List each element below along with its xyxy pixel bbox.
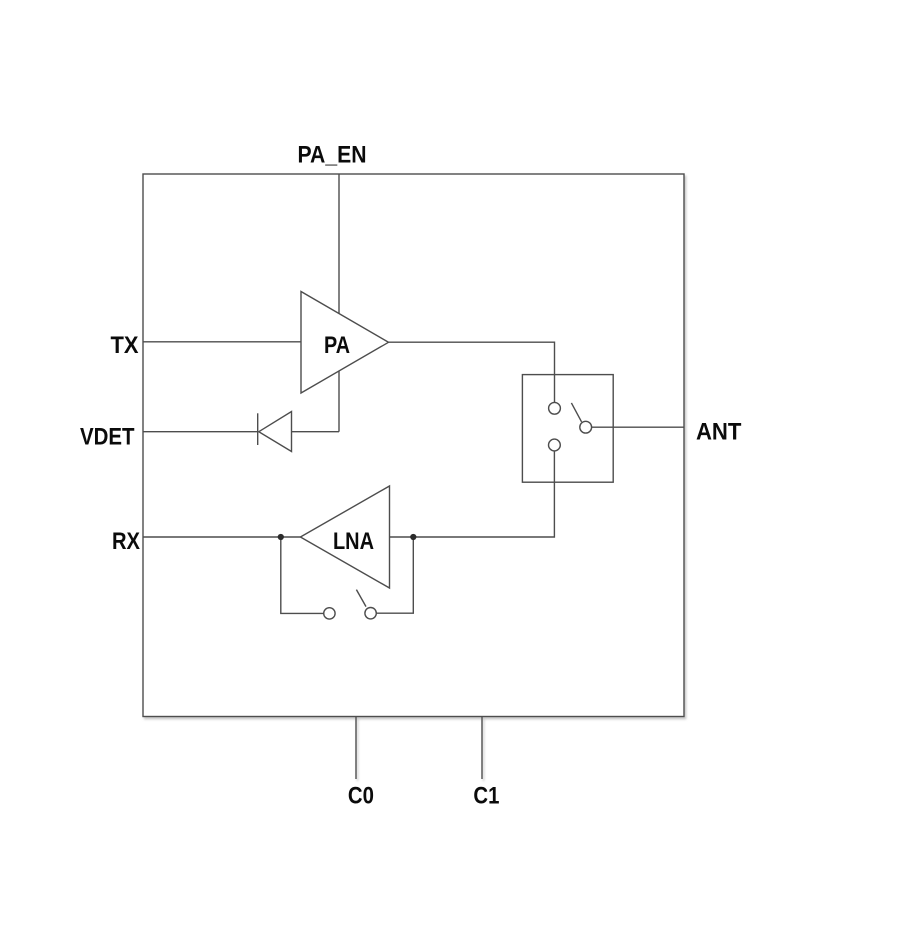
switch SW1 RX pole circle bbox=[549, 439, 561, 451]
svg-text:LNA: LNA bbox=[333, 528, 374, 555]
node junction dot LNA input bbox=[278, 534, 284, 540]
switch SW2 right circle bbox=[365, 608, 376, 619]
svg-text:PA_EN: PA_EN bbox=[298, 142, 367, 169]
svg-text:C0: C0 bbox=[348, 783, 374, 810]
wire bypass right branch bbox=[376, 537, 413, 613]
node junction dot LNA output bbox=[410, 534, 416, 540]
wire PA output to switch bbox=[389, 342, 555, 402]
svg-text:ANT: ANT bbox=[696, 419, 742, 446]
switch SW2 arm bbox=[356, 590, 366, 607]
op-amp LNA triangle bbox=[300, 486, 389, 588]
wire C0 bbox=[355, 717, 357, 780]
switch SW1 TX pole circle bbox=[549, 402, 561, 414]
diode D1 triangle bbox=[259, 412, 292, 452]
wire TX input bbox=[143, 341, 301, 343]
svg-text:RX: RX bbox=[112, 528, 140, 555]
wire RX input bbox=[143, 536, 300, 538]
wire ANT output bbox=[592, 426, 684, 428]
svg-text:TX: TX bbox=[111, 332, 139, 359]
wire diode to bias node bbox=[292, 431, 340, 433]
wire switch RX pole down to LNA output bbox=[413, 451, 554, 537]
svg-text:PA: PA bbox=[324, 332, 350, 359]
wire VDET to diode bbox=[143, 431, 258, 433]
diode D1 cathode bar bbox=[257, 413, 259, 445]
wire PA_EN vertical into PA bbox=[338, 174, 340, 314]
switch SW2 left circle bbox=[324, 608, 335, 619]
switch SW1 common circle bbox=[580, 421, 592, 433]
op-amp PA triangle bbox=[301, 292, 389, 394]
switch SW1 arm bbox=[571, 403, 581, 422]
chip outline box bbox=[143, 174, 684, 717]
svg-text:VDET: VDET bbox=[80, 423, 135, 450]
switch box SW1 body bbox=[522, 375, 613, 483]
svg-text:C1: C1 bbox=[473, 783, 499, 810]
wire C1 bbox=[481, 717, 483, 780]
wire LNA output bbox=[390, 536, 414, 538]
wire PA bias down to detector bbox=[338, 371, 340, 432]
wire bypass left branch bbox=[281, 537, 324, 613]
